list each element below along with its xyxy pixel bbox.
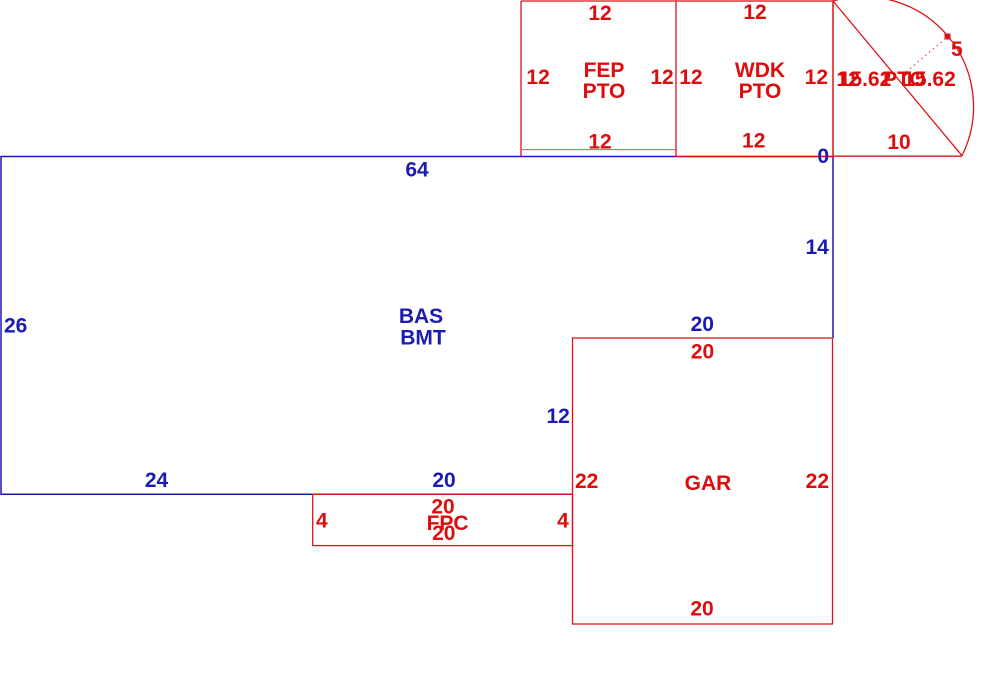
svg-text:20: 20 bbox=[691, 313, 714, 336]
svg-text:WDK: WDK bbox=[735, 59, 785, 82]
svg-text:PTO: PTO bbox=[583, 80, 626, 103]
FEP PTO porch: top edge bbox=[521, 0, 676, 2]
svg-text:12: 12 bbox=[526, 66, 549, 89]
FEP PTO porch: left edge bbox=[520, 1, 522, 157]
svg-text:0: 0 bbox=[817, 145, 829, 168]
svg-text:22: 22 bbox=[575, 470, 598, 493]
svg-text:64: 64 bbox=[405, 159, 429, 182]
svg-text:20: 20 bbox=[432, 469, 455, 492]
svg-text:24: 24 bbox=[145, 469, 169, 492]
arc midpoint marker bbox=[945, 34, 951, 40]
svg-text:20: 20 bbox=[691, 341, 714, 364]
svg-text:26: 26 bbox=[4, 314, 27, 337]
svg-text:BMT: BMT bbox=[400, 326, 446, 349]
GAR garage rectangle bbox=[573, 338, 833, 624]
svg-text:14: 14 bbox=[805, 236, 829, 259]
svg-text:10: 10 bbox=[887, 131, 910, 154]
svg-text:12: 12 bbox=[742, 130, 765, 153]
svg-text:12: 12 bbox=[588, 2, 611, 25]
svg-text:5: 5 bbox=[951, 38, 963, 61]
svg-text:FEP: FEP bbox=[584, 59, 625, 82]
curved PTO area: diagonal chord (15.62) bbox=[833, 1, 962, 156]
FEP PTO porch: bottom edge bbox=[521, 149, 676, 151]
BAS/BMT basement outline (blue L-shape, shared GAR edges drawn by red on top) bbox=[1, 157, 833, 495]
svg-text:PTO: PTO bbox=[739, 80, 782, 103]
svg-text:22: 22 bbox=[806, 470, 829, 493]
curved PTO area: left vertical edge bbox=[832, 1, 834, 157]
svg-text:15.62: 15.62 bbox=[903, 68, 956, 91]
svg-text:12: 12 bbox=[805, 66, 828, 89]
curved PTO area: arc edge bbox=[833, 0, 974, 156]
svg-text:GAR: GAR bbox=[685, 472, 732, 495]
svg-text:12: 12 bbox=[679, 66, 702, 89]
svg-text:4: 4 bbox=[316, 509, 328, 532]
svg-text:BAS: BAS bbox=[399, 305, 443, 328]
WDK PTO deck rectangle bbox=[676, 1, 833, 157]
svg-text:12: 12 bbox=[588, 131, 611, 154]
arc bulge dotted leader line bbox=[905, 39, 946, 74]
svg-text:12: 12 bbox=[650, 66, 673, 89]
svg-text:20: 20 bbox=[690, 598, 713, 621]
svg-text:4: 4 bbox=[557, 509, 569, 532]
svg-text:12: 12 bbox=[743, 1, 766, 24]
FPC porch rectangle bbox=[313, 494, 573, 545]
curved PTO area: bottom edge (10) bbox=[833, 155, 962, 157]
svg-text:12: 12 bbox=[546, 405, 569, 428]
svg-text:20: 20 bbox=[432, 522, 455, 545]
